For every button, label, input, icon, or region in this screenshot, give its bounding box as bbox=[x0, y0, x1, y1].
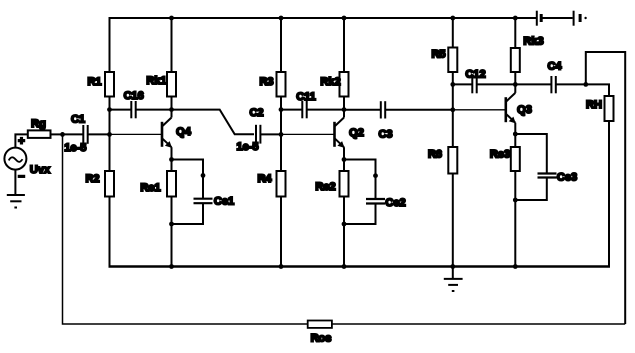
capacitor Ce2 bbox=[366, 197, 406, 209]
wire Re3 bottom to ground rail bbox=[514, 171, 516, 267]
resistor Rk3 bbox=[511, 36, 544, 73]
wire Q4 base line bbox=[110, 133, 162, 135]
wire feedback bottom right segment bbox=[332, 323, 625, 325]
wire collector line to diagonal bbox=[172, 110, 255, 135]
wire R2 column top bbox=[109, 134, 111, 171]
svg-text:1e-5: 1e-5 bbox=[64, 142, 86, 154]
svg-text:Ce1: Ce1 bbox=[214, 196, 234, 208]
node Q4 collector junction bbox=[169, 107, 174, 112]
battery bbox=[537, 11, 587, 26]
node Rk2 top rail junction bbox=[342, 16, 347, 21]
node 1 (input node) bbox=[60, 132, 65, 137]
wire Rk3 top drop bbox=[514, 18, 516, 48]
wire source bottom to ground bbox=[14, 170, 16, 195]
wire output to RH bbox=[586, 84, 609, 96]
wire Rg to node 1 bbox=[51, 133, 63, 135]
wire Q3 base line bbox=[453, 109, 506, 111]
wire Ce3 bottom loop bbox=[515, 178, 547, 201]
wire R4 bottom to ground rail bbox=[280, 197, 282, 267]
wire C11 left bbox=[281, 109, 302, 111]
wire Q3 emitter to Re3 bbox=[514, 134, 516, 147]
wire Rk1 top drop bbox=[171, 18, 173, 72]
svg-text:Rk2: Rk2 bbox=[320, 76, 340, 88]
wire node1 to C1 bbox=[63, 133, 84, 135]
svg-text:Q3: Q3 bbox=[517, 104, 532, 116]
node Q3 emitter bbox=[513, 132, 518, 137]
capacitor Ce3 bbox=[538, 172, 578, 184]
svg-text:−: − bbox=[18, 171, 24, 183]
node Q4 emitter bbox=[169, 157, 174, 162]
wire R3 bottom bbox=[280, 97, 282, 135]
wire Q4 emitter to Ce1 bbox=[172, 160, 204, 199]
wire R4 column top bbox=[280, 134, 282, 171]
wire Re1 bottom to ground rail bbox=[171, 197, 173, 267]
svg-text:C12: C12 bbox=[465, 69, 485, 81]
wire Q2 emitter to Re2 bbox=[343, 160, 345, 172]
node Re3 ground rail junction bbox=[513, 264, 518, 269]
resistor R2 bbox=[85, 171, 114, 197]
node R3-base junction bbox=[279, 132, 284, 137]
node Ce1 column dot bbox=[201, 173, 206, 178]
svg-text:R5: R5 bbox=[431, 49, 445, 61]
svg-text:C11: C11 bbox=[296, 91, 316, 103]
node R3-C11 junction bbox=[279, 107, 284, 112]
node R5 top rail junction bbox=[450, 16, 455, 21]
wire R3 top drop bbox=[280, 18, 282, 72]
wire R6 bottom to ground rail bbox=[452, 174, 454, 268]
node Q3 collector junction bbox=[513, 82, 518, 87]
wire R5 top drop bbox=[452, 18, 454, 48]
resistor Rk1 bbox=[146, 72, 176, 97]
svg-text:R2: R2 bbox=[85, 173, 99, 185]
ground (source) bbox=[7, 195, 25, 208]
voltage source Uvx bbox=[4, 136, 51, 184]
resistor R1 bbox=[87, 72, 114, 97]
svg-text:Ros: Ros bbox=[311, 332, 332, 344]
resistor Rg bbox=[28, 118, 51, 138]
node output junction bbox=[583, 82, 588, 87]
wire C16 right to Q4 collector node bbox=[136, 109, 172, 111]
svg-text:Rg: Rg bbox=[31, 118, 46, 130]
node Re2 ground rail junction bbox=[342, 264, 347, 269]
resistor R3 bbox=[259, 72, 285, 97]
wire C12 left bbox=[453, 83, 473, 85]
node Re1-Ce1 bottom junction bbox=[169, 222, 174, 227]
svg-text:C2: C2 bbox=[249, 107, 263, 119]
node Re1 ground rail junction bbox=[169, 264, 174, 269]
wire Q4 emitter to Re1 bbox=[171, 160, 173, 172]
svg-text:R3: R3 bbox=[259, 76, 273, 88]
resistor Re1 bbox=[140, 171, 176, 197]
svg-text:Ce2: Ce2 bbox=[385, 197, 405, 209]
svg-text:Re3: Re3 bbox=[490, 149, 510, 161]
capacitor C16 bbox=[124, 90, 144, 118]
capacitor C12 bbox=[465, 69, 485, 94]
capacitor C4 bbox=[547, 61, 562, 94]
node R1-C16 junction bbox=[107, 107, 112, 112]
capacitor Ce1 bbox=[194, 196, 235, 208]
node Q2 collector junction bbox=[342, 107, 347, 112]
capacitor C11 bbox=[296, 91, 316, 118]
node R3 top rail junction bbox=[279, 16, 284, 21]
wire Q3 emitter to Ce3 bbox=[515, 134, 547, 173]
wire Rk3 bottom bbox=[514, 72, 516, 84]
wire Q2 base line bbox=[281, 133, 334, 135]
wire ground rail bbox=[109, 265, 611, 267]
transistor Q3 bbox=[506, 84, 532, 134]
node Rk1 top rail junction bbox=[169, 16, 174, 21]
wire R1 bottom to base line bbox=[109, 97, 111, 135]
svg-text:Rk3: Rk3 bbox=[523, 36, 543, 48]
svg-text:R1: R1 bbox=[87, 76, 101, 88]
node R4 ground rail junction bbox=[279, 264, 284, 269]
node R5-C12 junction bbox=[450, 82, 455, 87]
ground (rail) bbox=[444, 267, 463, 292]
wire C3 left (Q2 collector to C3) bbox=[344, 109, 380, 111]
wire Rk2 top drop bbox=[343, 18, 345, 72]
svg-text:R4: R4 bbox=[257, 173, 272, 185]
svg-text:Rk1: Rk1 bbox=[146, 75, 166, 87]
svg-text:Q2: Q2 bbox=[349, 127, 364, 139]
wire C4 right to output node bbox=[556, 83, 586, 85]
wire feedback bottom left segment to node1 bbox=[63, 134, 309, 324]
svg-text:C16: C16 bbox=[124, 90, 144, 102]
wire C4 left bbox=[515, 83, 551, 85]
svg-text:RH: RH bbox=[586, 99, 602, 111]
wire RH bottom to ground rail bbox=[608, 121, 610, 267]
wire C12 right bbox=[477, 83, 516, 85]
node Q2 emitter bbox=[342, 157, 347, 162]
wire Re2 bottom to ground rail bbox=[343, 197, 345, 267]
svg-text:+: + bbox=[18, 136, 24, 148]
wire C11 right bbox=[307, 109, 344, 111]
svg-text:C3: C3 bbox=[378, 129, 392, 141]
resistor R6 bbox=[428, 147, 457, 174]
transistor Q4 bbox=[162, 110, 192, 160]
node Re3-Ce3 bottom junction bbox=[513, 198, 518, 203]
node Rk3 top rail junction bbox=[513, 16, 518, 21]
resistor RH bbox=[586, 96, 613, 121]
svg-text:C4: C4 bbox=[547, 61, 562, 73]
wire Q2 emitter to Ce2 bbox=[344, 160, 376, 199]
wire feedback from output up and right bbox=[586, 52, 625, 324]
svg-text:Re2: Re2 bbox=[315, 181, 335, 193]
wire R1 top drop bbox=[109, 17, 111, 72]
wire C2 to R3 column bbox=[260, 133, 281, 135]
svg-text:R6: R6 bbox=[428, 149, 442, 161]
wire C1 to R1 column bbox=[88, 133, 110, 135]
svg-text:Re1: Re1 bbox=[140, 182, 160, 194]
node Ce2 column dot bbox=[373, 173, 378, 178]
capacitor C3 bbox=[378, 101, 392, 140]
wire C16 left bbox=[110, 109, 132, 111]
svg-text:Uvx: Uvx bbox=[30, 164, 51, 176]
capacitor C2 bbox=[236, 107, 263, 153]
resistor R4 bbox=[257, 171, 285, 197]
resistor Ros bbox=[308, 321, 332, 345]
svg-text:Q4: Q4 bbox=[176, 126, 192, 138]
svg-text:Ce3: Ce3 bbox=[557, 172, 577, 184]
resistor Re2 bbox=[315, 171, 348, 197]
node R1-base junction bbox=[107, 132, 112, 137]
node ground rail junction bbox=[450, 264, 455, 269]
resistor Re3 bbox=[490, 147, 520, 171]
svg-text:1e-5: 1e-5 bbox=[236, 141, 258, 153]
wire top rail bbox=[110, 17, 537, 19]
wire R2 bottom to ground rail bbox=[109, 197, 111, 266]
resistor Rk2 bbox=[320, 72, 348, 97]
wire Ce1 bottom loop bbox=[172, 203, 204, 224]
wire Rk1 bottom to collector node bbox=[171, 97, 173, 111]
wire R5 bottom bbox=[452, 72, 454, 110]
node R5-base junction bbox=[450, 107, 455, 112]
wire R6 column top bbox=[452, 110, 454, 147]
resistor R5 bbox=[431, 48, 457, 73]
wire Rk2 bottom bbox=[343, 97, 345, 111]
node Re2-Ce2 bottom junction bbox=[342, 222, 347, 227]
svg-text:C1: C1 bbox=[71, 114, 85, 126]
wire C3 right to R5 column bbox=[385, 109, 453, 111]
capacitor C1 bbox=[64, 114, 87, 155]
wire Ce2 bottom loop bbox=[344, 204, 376, 225]
wire source top to Rg bbox=[15, 134, 27, 147]
transistor Q2 bbox=[335, 110, 364, 160]
